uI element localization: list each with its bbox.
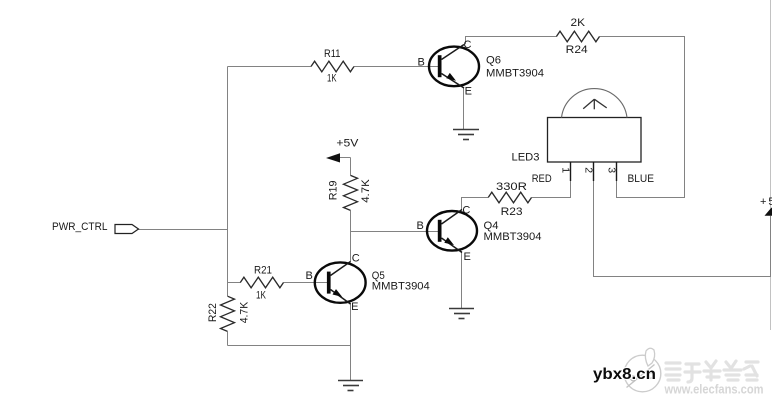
svg-text:+5V: +5V: [760, 196, 772, 208]
svg-text:MMBT3904: MMBT3904: [486, 67, 544, 79]
svg-text:1K: 1K: [256, 290, 266, 302]
svg-text:C: C: [352, 253, 360, 265]
svg-text:BLUE: BLUE: [628, 173, 655, 185]
svg-text:1: 1: [560, 167, 572, 173]
svg-text:2: 2: [583, 167, 595, 173]
svg-text:4.7K: 4.7K: [238, 301, 250, 323]
svg-text:R24: R24: [566, 44, 588, 56]
svg-text:PWR_CTRL: PWR_CTRL: [52, 221, 108, 233]
svg-text:R22: R22: [207, 303, 219, 322]
svg-text:B: B: [418, 56, 425, 68]
svg-text:C: C: [464, 39, 472, 51]
svg-text:E: E: [351, 301, 358, 313]
svg-text:1K: 1K: [327, 73, 337, 85]
svg-text:RED: RED: [532, 173, 552, 185]
svg-text:R21: R21: [254, 265, 272, 277]
svg-text:LED3: LED3: [512, 152, 540, 164]
svg-text:B: B: [417, 220, 424, 232]
svg-text:R23: R23: [501, 206, 523, 218]
svg-text:2K: 2K: [571, 17, 586, 29]
svg-text:330R: 330R: [496, 181, 527, 193]
svg-text:3: 3: [606, 167, 618, 173]
svg-text:+5V: +5V: [336, 137, 359, 149]
svg-text:MMBT3904: MMBT3904: [484, 231, 542, 243]
svg-text:E: E: [464, 251, 471, 263]
svg-text:4.7K: 4.7K: [360, 179, 372, 203]
svg-text:www.elecfans.com: www.elecfans.com: [664, 383, 764, 397]
svg-text:ybx8.cn: ybx8.cn: [593, 366, 656, 383]
svg-text:E: E: [465, 86, 472, 98]
svg-text:C: C: [462, 204, 470, 216]
svg-text:MMBT3904: MMBT3904: [372, 281, 430, 293]
svg-text:R11: R11: [324, 48, 341, 60]
svg-text:R19: R19: [327, 181, 339, 201]
svg-text:B: B: [306, 270, 313, 282]
svg-text:Q6: Q6: [486, 54, 501, 66]
